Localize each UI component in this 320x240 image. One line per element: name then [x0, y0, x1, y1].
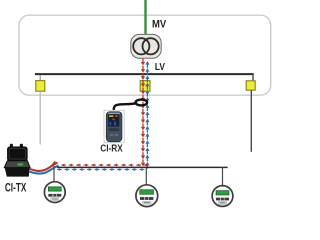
- svg-text:LV: LV: [155, 62, 165, 73]
- CI-RX top band: [108, 113, 120, 115]
- CI-RX screen red chip: [112, 119, 115, 121]
- fuse right: [246, 81, 255, 90]
- svg-text:CI-TX: CI-TX: [5, 181, 26, 195]
- fuse middle: [140, 81, 150, 92]
- feeder left: [39, 91, 41, 144]
- fuse stub right: [252, 74, 254, 81]
- LV drop conductor: red signal arrows (down): [141, 59, 145, 167]
- CI-RX screen: [108, 114, 119, 126]
- TX lead red: [30, 163, 58, 171]
- svg-text:MV: MV: [152, 19, 167, 31]
- transformer: [131, 34, 161, 58]
- feeder right: [250, 90, 252, 152]
- substation enclosure: [19, 15, 271, 95]
- LV drop conductor: blue signal arrows (up): [145, 61, 149, 169]
- CI-RX screen blue chip 2: [114, 122, 116, 126]
- meter 2: [136, 185, 158, 207]
- CI-TX case base front: [5, 167, 30, 176]
- CI-TX case base top face: [4, 161, 30, 168]
- CI-TX case handle tabs: [10, 144, 13, 149]
- TX lead red arrowhead: [50, 160, 57, 165]
- fuse stub left: [39, 75, 41, 81]
- fuse left: [36, 81, 45, 92]
- CI-RX screen orange chip: [115, 115, 117, 117]
- CI-RX screen yellow bar: [109, 115, 113, 117]
- CI-TX case lid panel: [9, 149, 25, 159]
- service line blue arrows (right): [57, 168, 145, 171]
- meter drop 3: [222, 167, 224, 186]
- service line red arrows (left): [61, 164, 149, 167]
- MV line: [144, 0, 146, 35]
- svg-text:CI-RX: CI-RX: [100, 143, 123, 155]
- meter drop 2: [145, 168, 147, 184]
- CI-RX photo frame: [104, 110, 124, 143]
- CI-TX green button: [17, 163, 23, 166]
- LV service line: [57, 166, 228, 168]
- CI-RX device body: [106, 112, 122, 142]
- clamp cable: [114, 103, 136, 111]
- meter drop 1: [53, 166, 55, 182]
- CI-TX case lid: [8, 147, 28, 161]
- LV bus: [35, 73, 254, 75]
- CI-RX keypad: [109, 128, 119, 131]
- clamp: [136, 100, 148, 106]
- CI-RX screen blue chip 1: [109, 122, 111, 125]
- TX lead blue: [30, 165, 59, 173]
- meter 3: [212, 186, 233, 207]
- meter 1: [44, 182, 65, 203]
